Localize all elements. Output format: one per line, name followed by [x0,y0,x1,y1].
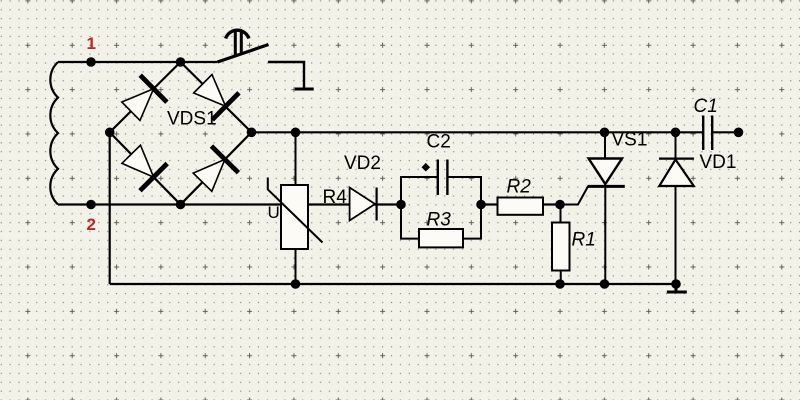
bridge rectifier diamond [110,62,252,205]
capacitor C2 plates [438,160,448,196]
wire top: winding to switch pivot [58,61,218,63]
node: right end terminal [734,128,744,138]
wire: R2 to gate node [543,203,560,205]
diode VDS1 top-left [122,75,167,120]
varistor R4 body [281,185,308,249]
node: parallel block output [476,200,486,210]
svg-text:2: 2 [87,215,96,234]
wire: top rail from bridge right node to C1 [252,131,704,133]
node: R1 bottom [555,279,565,289]
node: VS1 anode [600,128,610,138]
switch contact end bar [295,88,314,91]
wire: C2/R3 parallel loop [401,177,481,239]
node 1 dot [86,57,96,67]
wire: gate to thyristor [560,186,588,204]
capacitor C1 plates [703,116,712,151]
diode VD1 bottom lead [675,186,677,284]
node: varistor bottom [291,279,301,289]
wire: bridge left node down to bottom rail [109,132,111,284]
node: gate junction [555,200,565,210]
node: VS1 cathode bottom [600,279,610,289]
C2 polarity mark [422,163,431,172]
svg-text:R3: R3 [427,210,452,231]
diode VDS1 bottom-right [193,146,238,191]
svg-text:C1: C1 [694,96,718,117]
switch SA blade [218,45,269,63]
switch button stem [235,31,241,56]
resistor R1 leads [560,205,562,285]
resistor R2 body [498,198,544,215]
wire mid rail: winding bottom to bridge and R2 [58,203,498,205]
wire: bottom rail [110,283,676,285]
diode VDS1 top-right [194,75,239,120]
node 2 dot [86,200,96,210]
svg-text:R4: R4 [323,187,348,208]
svg-text:VD1: VD1 [700,152,737,173]
svg-text:VDS1: VDS1 [167,109,217,130]
diode VD1 top lead [675,132,677,158]
resistor R1 body [552,223,570,271]
winding W1 [50,62,58,205]
thyristor VS1 cathode bar [588,185,625,188]
diode VD1 triangle [659,160,694,187]
svg-text:C2: C2 [427,132,451,153]
node: bridge left [105,128,115,138]
node: varistor top [291,128,301,138]
node: VD1 bottom / ground junction [671,279,681,289]
svg-text:U: U [268,203,280,222]
thyristor VS1 triangle [589,159,622,185]
diode VD1 cathode bar [659,158,694,160]
node: bridge right [247,128,257,138]
switch fixed contact wire [268,62,304,88]
node: VD2 cathode junction [396,200,406,210]
svg-text:VD2: VD2 [344,153,381,174]
node: bridge top [176,57,186,67]
thyristor VS1 cathode lead [604,186,606,284]
svg-text:R2: R2 [507,177,532,198]
varistor R4 diagonal stroke with tick [268,178,323,243]
resistor R3 body [419,229,463,247]
switch button cap arc [226,30,249,38]
svg-text:R1: R1 [572,230,596,251]
svg-text:1: 1 [87,34,96,53]
node: bridge bottom [176,200,186,210]
node: VD1 top [671,128,681,138]
varistor R4 top lead [295,132,297,284]
wire: C1 right plate to end terminal [712,131,738,133]
diode VDS1 bottom-left [122,145,167,191]
ground [667,284,687,292]
diode VD2 [350,188,377,221]
thyristor VS1 anode lead [604,132,606,158]
svg-text:VS1: VS1 [612,130,648,151]
